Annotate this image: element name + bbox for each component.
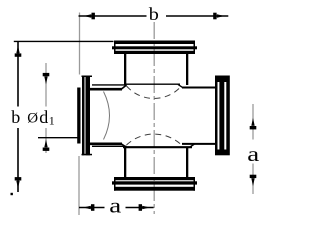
svg-text:Ø: Ø: [27, 110, 38, 126]
svg-text:b: b: [149, 5, 159, 25]
svg-text:a: a: [109, 195, 121, 218]
svg-text:1: 1: [49, 114, 55, 128]
svg-text:a: a: [247, 144, 259, 167]
svg-text:b: b: [11, 107, 20, 127]
svg-text:d: d: [39, 107, 48, 127]
